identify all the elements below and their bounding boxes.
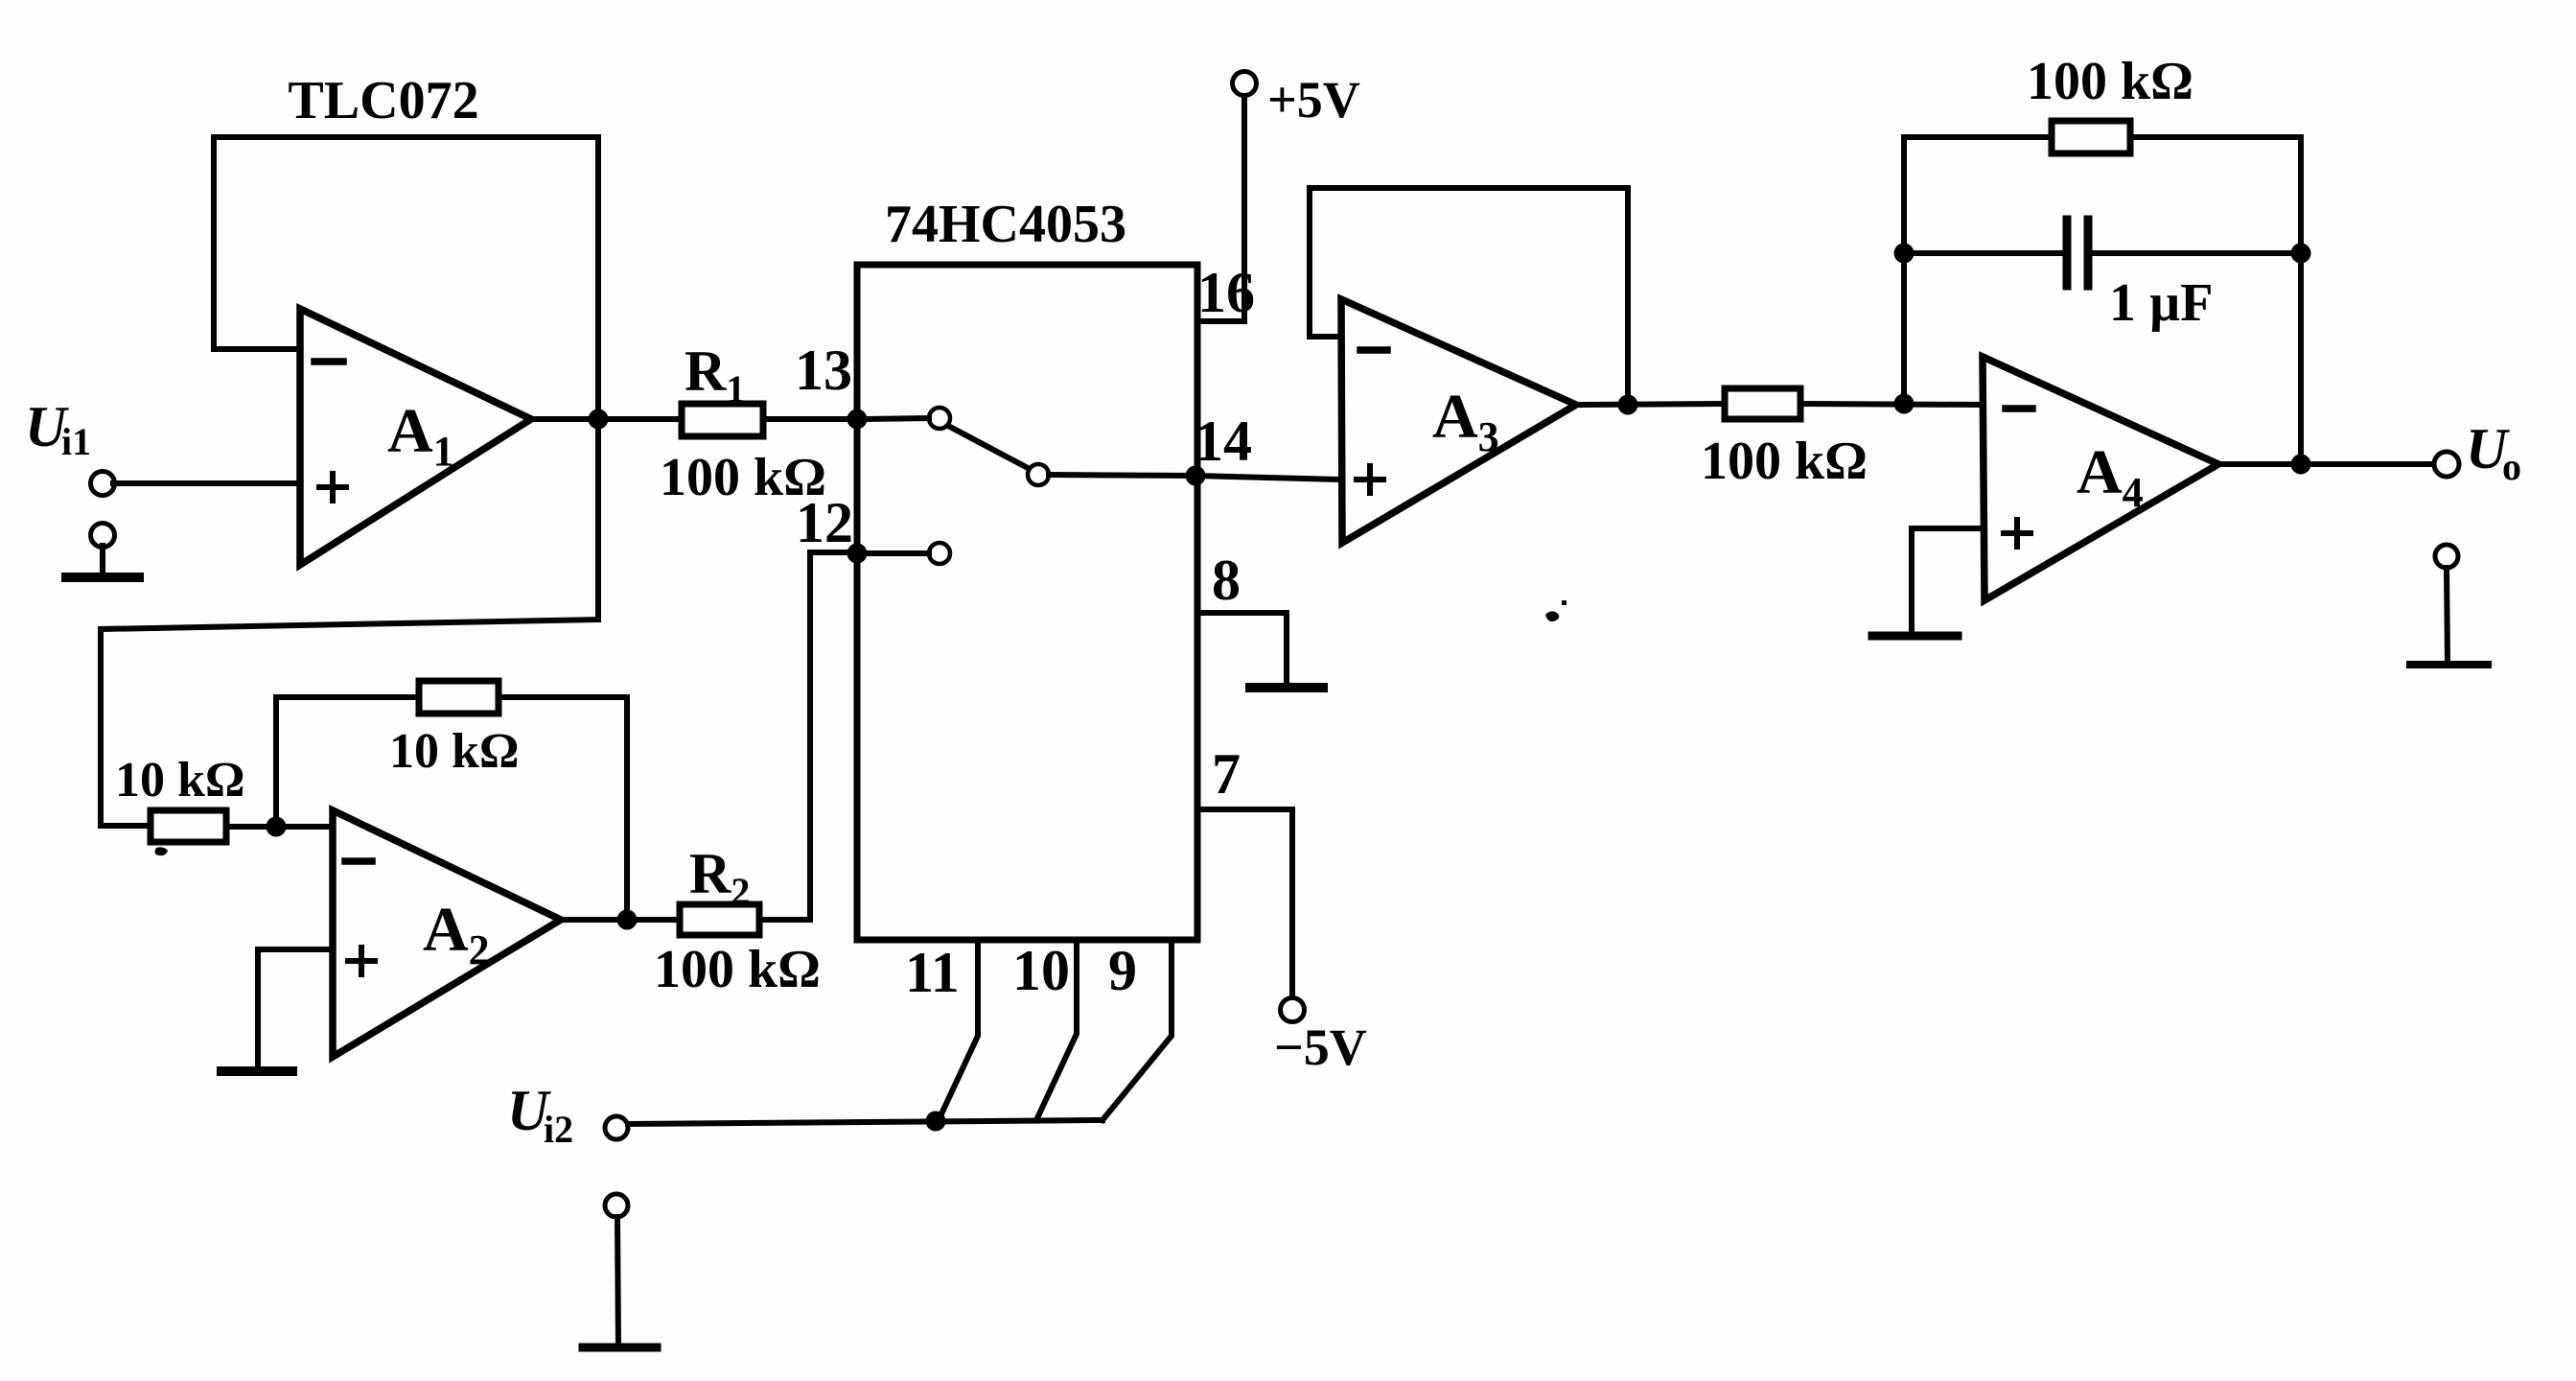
wire A3 feedback loop xyxy=(1310,188,1628,405)
wire pin 8 stub xyxy=(1197,613,1287,685)
node junction pin 13 xyxy=(847,410,868,430)
svg-text:i1: i1 xyxy=(61,420,91,463)
wire A1 feedback loop xyxy=(214,137,598,349)
op-amp A4 xyxy=(1983,357,2218,600)
node junction at A1 output xyxy=(589,410,609,430)
wire A2 feedback left xyxy=(273,697,279,827)
svg-text:+5V: +5V xyxy=(1267,71,1360,129)
wire A2 feedback top right xyxy=(499,694,627,700)
wire switch common to pin 14 xyxy=(1049,475,1195,476)
capacitor C1 1uF xyxy=(2067,220,2088,286)
wire R2 to riser xyxy=(759,917,810,923)
switch arm xyxy=(948,426,1030,469)
wire capacitor right xyxy=(2092,250,2301,256)
svg-text:1 µF: 1 µF xyxy=(2109,273,2213,333)
op-amp A2 xyxy=(333,810,561,1057)
wire A4 feedback top left xyxy=(1904,134,2052,140)
svg-text:12: 12 xyxy=(796,491,853,554)
svg-text:o: o xyxy=(2502,445,2521,488)
wire A2 output xyxy=(561,917,680,923)
wire A1 output to R1 xyxy=(531,416,682,422)
wire A3 output to 100k xyxy=(1576,404,1725,405)
wire A2 + input to ground xyxy=(258,949,333,1069)
op-amp A1 xyxy=(300,309,531,565)
wire A4 output xyxy=(2218,461,2435,467)
switch contact pin 12 xyxy=(929,543,950,564)
wire A2 feedback right vertical xyxy=(624,697,630,920)
node junction A3 output xyxy=(1618,395,1638,415)
svg-text:7: 7 xyxy=(1212,742,1241,806)
resistor 10 kOhm at A2 input xyxy=(101,810,333,842)
svg-text:10: 10 xyxy=(1012,939,1070,1002)
node junction A4 output xyxy=(2291,455,2311,475)
ground below Ui2 xyxy=(583,1194,657,1347)
wire pin 7 stub to -5V xyxy=(1197,809,1292,998)
svg-text:−5V: −5V xyxy=(1274,1018,1367,1076)
IC 74HC4053 body xyxy=(857,265,1197,940)
svg-text:100 kΩ: 100 kΩ xyxy=(1701,432,1868,491)
wire pin 9 stub xyxy=(1102,940,1172,1120)
node Uo output terminal xyxy=(2434,452,2459,477)
node junction A2 inverting input xyxy=(267,817,287,837)
wire A1 output to bottom rail xyxy=(101,620,598,826)
scan artifact squiggle xyxy=(155,847,177,863)
wire Ui1 to A1 + input xyxy=(113,480,300,486)
wire Ui2 to switch control pins xyxy=(628,1120,1102,1124)
svg-text:100 kΩ: 100 kΩ xyxy=(654,940,821,999)
ground below Ui1 xyxy=(66,524,139,578)
scan artifact blob xyxy=(1545,611,1559,621)
ground at A4 + input xyxy=(1872,632,1958,641)
ground at pin 8 xyxy=(1250,683,1323,692)
node junction pin 14 xyxy=(1186,466,1206,486)
node junction A2 output xyxy=(617,910,638,930)
wire pin 16 stub to +5V xyxy=(1197,94,1244,321)
wire pin12 to contact xyxy=(866,550,929,556)
node Ui2 terminal xyxy=(605,1116,628,1139)
wire A4 node vertical xyxy=(1901,137,1907,404)
node junction pin 12 xyxy=(847,544,868,564)
wire R2 riser to pin 12 xyxy=(810,552,857,920)
wire R1 to pin 13 xyxy=(763,416,857,422)
wire capacitor left xyxy=(1904,250,2063,256)
wire A4 + input to ground xyxy=(1912,528,1983,635)
node Ui1 input terminal xyxy=(91,472,115,496)
svg-text:i2: i2 xyxy=(544,1108,573,1151)
scan artifact speck xyxy=(1562,600,1566,605)
svg-text:13: 13 xyxy=(795,339,852,402)
ground at A2 + input xyxy=(221,1066,292,1076)
wire pin 11 stub xyxy=(939,940,978,1120)
svg-text:10 kΩ: 10 kΩ xyxy=(115,753,245,808)
switch contact pin 13 xyxy=(929,408,950,429)
svg-text:8: 8 xyxy=(1212,549,1241,612)
node junction cap right xyxy=(2291,244,2311,264)
switch common contact xyxy=(1028,464,1049,485)
node junction on Ui2 wire xyxy=(926,1112,946,1132)
svg-text:14: 14 xyxy=(1195,410,1252,473)
svg-text:11: 11 xyxy=(905,941,960,1004)
resistor 10 kOhm feedback A2 xyxy=(419,681,499,714)
wire pin 10 stub xyxy=(1036,940,1077,1120)
ground below Uo xyxy=(2410,545,2488,665)
svg-text:100 kΩ: 100 kΩ xyxy=(2027,52,2193,111)
svg-text:TLC072: TLC072 xyxy=(288,71,478,130)
op-amp A3 xyxy=(1341,299,1576,543)
resistor R1 xyxy=(682,404,763,436)
svg-text:10 kΩ: 10 kΩ xyxy=(389,724,520,779)
node +5V terminal xyxy=(1233,72,1257,96)
svg-text:74HC4053: 74HC4053 xyxy=(885,195,1126,254)
wire A2 feedback top left xyxy=(276,694,419,700)
wire 100k to A4 - input xyxy=(1800,404,1983,405)
resistor R2 xyxy=(680,904,759,935)
svg-text:9: 9 xyxy=(1108,939,1137,1002)
resistor 100 kOhm between A3 and A4 xyxy=(1725,388,1800,419)
node junction A4 inverting input xyxy=(1894,394,1915,414)
resistor 100 kOhm A4 feedback xyxy=(2052,121,2130,153)
wire pin13 dot to contact xyxy=(866,418,929,419)
wire A4 feedback top right xyxy=(2130,134,2301,140)
wire A1 feedback right vertical xyxy=(595,137,601,620)
wire pin 14 to A3 + input xyxy=(1195,476,1340,480)
wire A4 feedback right vertical xyxy=(2298,137,2304,464)
node -5V terminal xyxy=(1281,998,1305,1022)
node junction cap left xyxy=(1894,244,1915,264)
